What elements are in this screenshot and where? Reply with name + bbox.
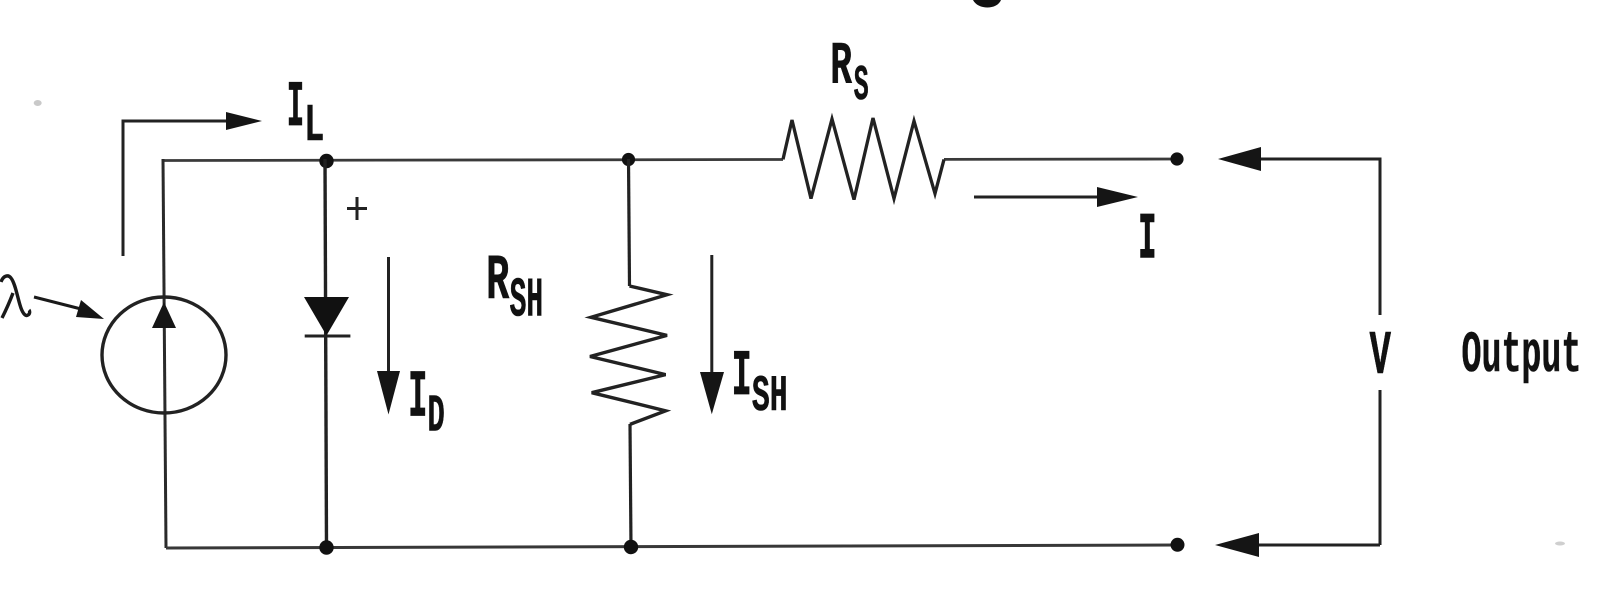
- wire diode branch: [325, 159, 327, 548]
- node junction dot top-left: [319, 154, 333, 168]
- faint scan smudge bottom-right: [1555, 542, 1565, 546]
- wire left rail: [163, 159, 166, 548]
- label I_L: [287, 72, 325, 157]
- current source arrow: [152, 302, 176, 328]
- label R_SH: [486, 245, 543, 333]
- faint scan smudge left: [34, 100, 42, 106]
- current source I_L circle: [102, 297, 226, 413]
- svg-text:R: R: [486, 245, 509, 318]
- node terminal dot bottom-right: [1171, 538, 1185, 552]
- svg-text:I: I: [732, 340, 752, 414]
- svg-text:L: L: [304, 97, 324, 157]
- svg-text:D: D: [428, 387, 445, 447]
- resistor R_SH zigzag: [590, 286, 667, 424]
- wire right rail lower: [1379, 390, 1382, 545]
- svg-text:SH: SH: [752, 367, 788, 426]
- lambda arrow: [34, 297, 85, 310]
- node terminal dot top-right: [1170, 152, 1183, 165]
- svg-text:I: I: [408, 359, 427, 435]
- node junction dot bottom-left: [319, 540, 333, 554]
- wire top rail left: [163, 160, 783, 161]
- label lambda: [1, 276, 30, 316]
- wire bottom rail: [166, 545, 1177, 548]
- arrow I_SH: [710, 255, 713, 378]
- svg-text:R: R: [830, 33, 852, 101]
- svg-text:SH: SH: [510, 270, 544, 333]
- wire R_SH top lead: [629, 159, 630, 286]
- diode D1: [304, 297, 349, 336]
- arrow I_D: [387, 257, 390, 378]
- node junction dot mid-top: [622, 153, 635, 166]
- label R_S: [830, 33, 868, 115]
- resistor R_S zigzag: [783, 118, 944, 200]
- wire top-right: [1261, 159, 1380, 315]
- svg-text:Output: Output: [1462, 324, 1582, 389]
- svg-text:I: I: [287, 72, 304, 146]
- svg-text:I: I: [1138, 204, 1156, 277]
- arrow I_L head: [226, 112, 262, 130]
- svg-text:V: V: [1370, 323, 1392, 393]
- cropped caption glyph fragment (top edge): [973, 0, 1001, 8]
- label I_SH: [732, 340, 788, 426]
- plus sign: [347, 207, 367, 210]
- arrow I output current: [974, 196, 1105, 199]
- svg-text:S: S: [854, 57, 869, 114]
- arrow into top terminal: [1218, 147, 1261, 171]
- label I_D: [408, 359, 445, 446]
- wire I_L indicator bracket: [123, 121, 228, 256]
- wire R_SH bottom lead: [630, 424, 631, 548]
- diode cathode bar: [305, 335, 351, 338]
- wire bottom-right: [1259, 544, 1380, 547]
- arrow into bottom terminal: [1215, 533, 1259, 557]
- wire top rail right: [944, 158, 1177, 161]
- node junction dot mid-bottom: [624, 540, 638, 554]
